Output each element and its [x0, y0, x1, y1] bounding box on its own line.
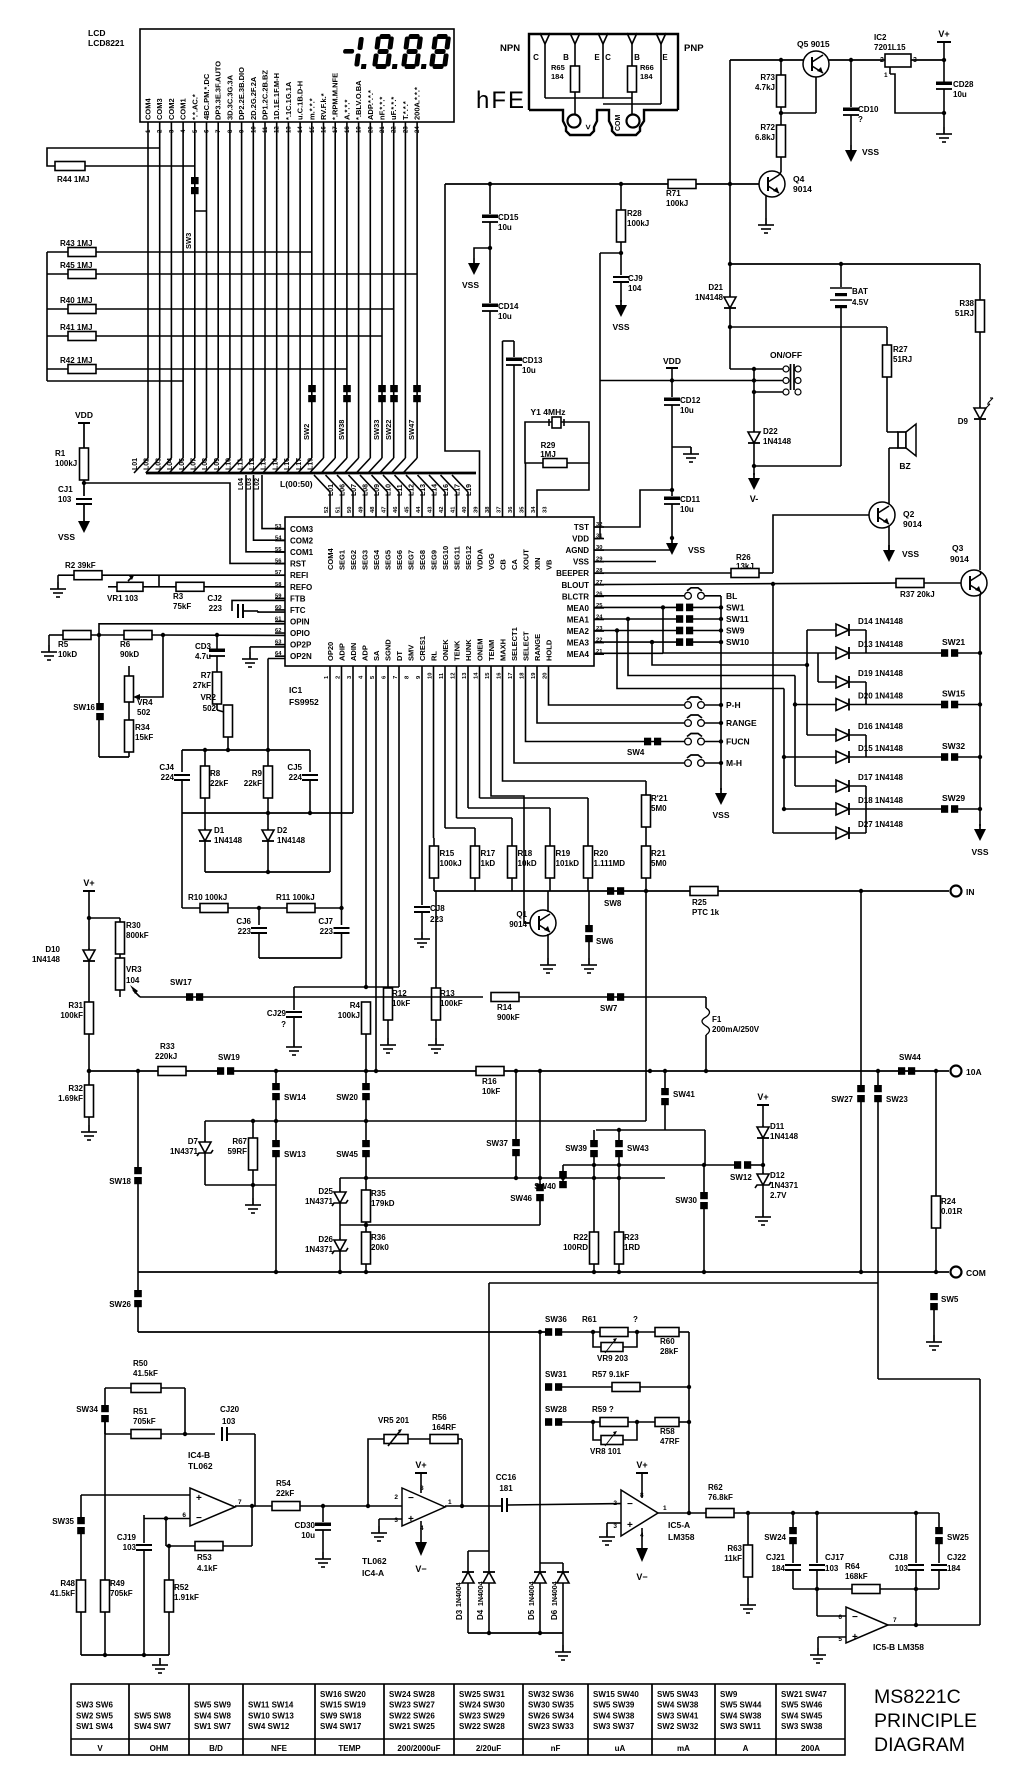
svg-text:V+: V+: [757, 1092, 768, 1102]
capacitor CJ21 184: [766, 1553, 801, 1589]
diode D26 1N4371 zener: [305, 1225, 348, 1272]
svg-text:NFE: NFE: [271, 1744, 288, 1753]
svg-text:CJ8: CJ8: [430, 904, 445, 913]
diode D7 1N4371 zener: [170, 1121, 213, 1185]
svg-text:CD3: CD3: [195, 642, 212, 651]
svg-text:SW30 SW35: SW30 SW35: [528, 1701, 574, 1710]
svg-text:1kD: 1kD: [481, 859, 496, 868]
svg-text:D16 1N4148: D16 1N4148: [858, 722, 903, 731]
svg-text:XOUT: XOUT: [522, 549, 531, 570]
svg-text:181: 181: [499, 1484, 513, 1493]
svg-text:*.BLV.O.BA: *.BLV.O.BA: [354, 80, 363, 120]
svg-text:V+: V+: [636, 1460, 647, 1470]
wire diode matrix anode links: [771, 582, 836, 833]
potentiometer VR3 104: [116, 958, 143, 997]
svg-text:SW41: SW41: [673, 1090, 695, 1099]
svg-text:17: 17: [333, 126, 339, 133]
svg-text:R41 1MJ: R41 1MJ: [60, 323, 92, 332]
svg-text:SA: SA: [372, 650, 381, 661]
wire hFE socket internal: [545, 58, 661, 104]
diode D10 1N4148: [32, 945, 95, 1002]
svg-text:BLOUT: BLOUT: [561, 581, 589, 590]
svg-text:R4: R4: [350, 1001, 361, 1010]
svg-text:R23: R23: [624, 1233, 639, 1242]
svg-text:41: 41: [451, 506, 457, 513]
svg-text:L04: L04: [238, 478, 245, 490]
svg-text:SW4: SW4: [627, 748, 645, 757]
resistor R67 59RF: [227, 1119, 257, 1198]
wire MEA3 to diode feed: [650, 640, 809, 667]
svg-text:SW16: SW16: [73, 703, 95, 712]
svg-text:DP2.2E.3B.DIO: DP2.2E.3B.DIO: [237, 67, 246, 120]
svg-text:SW2: SW2: [302, 424, 311, 440]
svg-text:SW23 SW27: SW23 SW27: [389, 1701, 435, 1710]
switch SW14: [272, 1071, 306, 1140]
wire CJ6 CJ7 bottom rail: [259, 957, 342, 959]
svg-text:R27: R27: [893, 345, 908, 354]
diode D17 1N4148: [836, 773, 903, 792]
resistor R20 1.111MD: [480, 666, 626, 891]
wire ADIN pin3 down to rail: [352, 666, 354, 813]
wire IC5-B output loop: [878, 1379, 980, 1627]
svg-text:IC5-B LM358: IC5-B LM358: [873, 1642, 924, 1652]
svg-text:VSS: VSS: [612, 322, 629, 332]
svg-text:R59 ?: R59 ?: [592, 1405, 614, 1414]
svg-text:100kJ: 100kJ: [666, 199, 688, 208]
svg-text:nF.*.*.*: nF.*.*.*: [378, 97, 387, 120]
resistor R50 41.5kF: [105, 1359, 185, 1393]
svg-text:MEA0: MEA0: [567, 604, 590, 613]
switch SW47: [407, 385, 421, 440]
svg-text:SW36: SW36: [545, 1315, 567, 1324]
svg-text:20k0: 20k0: [371, 1243, 389, 1252]
wire diode matrix cathode links: [849, 630, 866, 833]
svg-text:6.8kJ: 6.8kJ: [755, 133, 775, 142]
wire LCD pins 1-24 down to bus: [134, 122, 417, 473]
resistor R30 800kF: [89, 918, 149, 958]
resistor R3 75kF: [173, 582, 285, 611]
svg-text:SEG8: SEG8: [418, 550, 427, 570]
svg-text:43: 43: [428, 506, 434, 513]
wire caps bottom rail with R64: [793, 1587, 939, 1591]
resistor R51 705kF: [105, 1388, 215, 1439]
ground below CD28: [936, 127, 952, 142]
svg-text:R21: R21: [651, 849, 666, 858]
resistor R'21 5M0: [503, 666, 669, 846]
svg-text:800kF: 800kF: [126, 931, 149, 940]
svg-text:SW3: SW3: [184, 233, 193, 249]
wire rail 1332: [138, 1330, 545, 1334]
svg-text:OP2N: OP2N: [290, 652, 312, 661]
svg-text:>: >: [583, 124, 593, 129]
svg-text:VSS: VSS: [462, 280, 479, 290]
svg-text:SEG5: SEG5: [384, 550, 393, 570]
svg-text:BEEPER: BEEPER: [556, 569, 589, 578]
svg-text:47RF: 47RF: [660, 1437, 680, 1446]
svg-text:ADP.*.*.*: ADP.*.*.*: [366, 90, 375, 120]
svg-text:ONEM: ONEM: [476, 639, 485, 662]
svg-text:2.7V: 2.7V: [770, 1191, 787, 1200]
svg-text:R10 100kJ: R10 100kJ: [188, 893, 227, 902]
svg-text:L(00:50): L(00:50): [280, 479, 313, 489]
svg-text:R66: R66: [640, 63, 654, 72]
svg-text:VGG: VGG: [487, 553, 496, 570]
svg-text:TEMP: TEMP: [338, 1744, 361, 1753]
svg-text:11: 11: [263, 126, 269, 133]
svg-text:E: E: [662, 53, 668, 62]
svg-text:SW32 SW36: SW32 SW36: [528, 1690, 574, 1699]
IC1 top pin numbers 52-33: [324, 506, 549, 513]
switch SW31: [540, 1332, 612, 1391]
svg-text:MEA3: MEA3: [567, 639, 590, 648]
wire pin4 ADP down / CJ29 row: [294, 666, 399, 989]
resistor R2 39kF: [58, 561, 285, 580]
svg-text:R64: R64: [845, 1562, 860, 1571]
svg-text:SW8: SW8: [604, 899, 622, 908]
svg-text:4.5V: 4.5V: [852, 298, 869, 307]
svg-text:5M0: 5M0: [651, 859, 667, 868]
svg-text:SELECT1: SELECT1: [510, 627, 519, 661]
svg-text:R54: R54: [276, 1479, 291, 1488]
svg-text:SW23 SW29: SW23 SW29: [459, 1711, 505, 1720]
pushbutton RANGE: [537, 666, 757, 728]
svg-text:C: C: [533, 53, 539, 62]
potentiometer VR9 203: [593, 1332, 637, 1363]
capacitor CJ8 223 on pin9: [414, 666, 445, 947]
svg-text:Y1 4MHz: Y1 4MHz: [531, 407, 566, 417]
svg-text:CJ9: CJ9: [628, 274, 643, 283]
switch SW6: [581, 891, 614, 973]
svg-text:SW27: SW27: [831, 1095, 853, 1104]
svg-text:1N4371: 1N4371: [770, 1181, 799, 1190]
svg-text:D11: D11: [770, 1122, 785, 1131]
switch SW24: [764, 1513, 797, 1563]
svg-text:103: 103: [58, 495, 72, 504]
switch SW40: [534, 1165, 567, 1191]
svg-text:SW15 SW19: SW15 SW19: [320, 1701, 366, 1710]
svg-text:RANGE: RANGE: [533, 634, 542, 661]
svg-text:−: −: [852, 1612, 858, 1623]
svg-text:SW4 SW17: SW4 SW17: [320, 1722, 362, 1731]
svg-text:L01: L01: [132, 458, 139, 470]
svg-text:R29: R29: [541, 441, 556, 450]
svg-text:4.7kJ: 4.7kJ: [755, 83, 775, 92]
svg-text:11: 11: [439, 672, 445, 679]
svg-text:R51: R51: [133, 1407, 148, 1416]
svg-text:1D.1E.1F.M-H: 1D.1E.1F.M-H: [272, 73, 281, 120]
svg-text:R36: R36: [371, 1233, 386, 1242]
svg-text:103: 103: [222, 1417, 236, 1426]
svg-text:SW13: SW13: [284, 1150, 306, 1159]
fuse F1 200mA/250V: [702, 997, 760, 1071]
potentiometer VR2 502: [200, 693, 232, 750]
svg-text:MEA2: MEA2: [567, 627, 590, 636]
svg-text:L08: L08: [363, 484, 370, 496]
svg-text:37: 37: [497, 507, 503, 513]
svg-text:28kF: 28kF: [660, 1347, 678, 1356]
svg-text:COM3: COM3: [290, 525, 314, 534]
capacitor CJ2 223: [207, 594, 285, 618]
svg-text:SW10 SW13: SW10 SW13: [248, 1711, 294, 1720]
svg-text:SEG1: SEG1: [338, 550, 347, 570]
svg-text:IC5-A: IC5-A: [668, 1520, 690, 1530]
wire R26 to Q2 base: [773, 515, 869, 573]
svg-text:SW5 SW39: SW5 SW39: [593, 1701, 635, 1710]
op-amp IC4-B TL062: [182, 1450, 242, 1526]
wire IC5-A output row: [658, 1511, 706, 1515]
svg-text:L02: L02: [254, 478, 261, 490]
svg-text:*.*.AC.*: *.*.AC.*: [190, 94, 199, 120]
svg-text:SEG6: SEG6: [395, 550, 404, 570]
svg-text:5M0: 5M0: [651, 804, 667, 813]
capacitor CJ18 103: [889, 1513, 924, 1589]
resistor R14 900kF: [483, 993, 706, 1023]
resistor R23 1RD: [615, 1165, 641, 1272]
switch SW18: [109, 1071, 142, 1290]
capacitor CJ17 103: [809, 1513, 845, 1589]
resistor R37 20kJ: [594, 579, 961, 600]
wire MEA4 row: [594, 652, 663, 654]
svg-text:DT: DT: [395, 651, 404, 661]
svg-text:R48: R48: [60, 1579, 75, 1588]
svg-text:V−: V−: [636, 1572, 647, 1582]
svg-text:39: 39: [474, 506, 480, 513]
power VSS tap left of CD15: [462, 248, 490, 290]
svg-text:15kF: 15kF: [135, 733, 153, 742]
diode D15 1N4148: [836, 744, 903, 763]
svg-text:100kF: 100kF: [60, 1011, 83, 1020]
switch SW46: [510, 1071, 544, 1225]
svg-text:IC4-B: IC4-B: [188, 1450, 210, 1460]
svg-text:CJ17: CJ17: [825, 1553, 845, 1562]
wire Q2 collector to buzzer: [889, 448, 898, 504]
svg-text:CJ2: CJ2: [207, 594, 222, 603]
op-amp/IC U1: IC1 FS9952 main chip body: [285, 517, 594, 707]
svg-text:R35: R35: [371, 1189, 386, 1198]
resistor R9 22kF: [244, 750, 273, 813]
svg-text:14: 14: [298, 126, 304, 133]
svg-text:224: 224: [289, 773, 303, 782]
svg-text:MS8221C: MS8221C: [874, 1686, 961, 1708]
svg-text:L06: L06: [179, 458, 186, 470]
resistor R34 15kF: [99, 702, 153, 757]
capacitor CJ7 223: [318, 906, 349, 958]
svg-text:16: 16: [322, 126, 328, 133]
svg-text:SW22 SW26: SW22 SW26: [389, 1711, 435, 1720]
svg-text:VSS: VSS: [58, 532, 75, 542]
svg-text:R32: R32: [68, 1084, 83, 1093]
power VSS below CJ1: [58, 504, 90, 542]
diode D18 1N4148: [836, 796, 903, 815]
svg-text:R17: R17: [481, 849, 496, 858]
svg-text:IC2: IC2: [874, 33, 887, 42]
switch SW21: [866, 637, 982, 657]
svg-text:14: 14: [474, 672, 480, 679]
svg-text:AGND: AGND: [565, 546, 589, 555]
wire TST to CD11: [594, 488, 674, 527]
resistor R22 100RD: [563, 1165, 598, 1272]
svg-text:9014: 9014: [903, 519, 922, 529]
transistor Q1 9014: [509, 891, 556, 973]
svg-text:CD30: CD30: [295, 1521, 316, 1530]
svg-text:SW35: SW35: [52, 1517, 74, 1526]
svg-text:SEG4: SEG4: [372, 549, 381, 570]
svg-text:D15 1N4148: D15 1N4148: [858, 744, 903, 753]
svg-text:HOLD: HOLD: [545, 639, 554, 661]
svg-text:M-H: M-H: [726, 758, 742, 768]
svg-text:CJ4: CJ4: [159, 763, 174, 772]
svg-text:705kF: 705kF: [110, 1589, 133, 1598]
switch SW12: [730, 1161, 752, 1182]
svg-text:R8: R8: [210, 769, 221, 778]
svg-text:CJ29: CJ29: [267, 1009, 287, 1018]
svg-text:164RF: 164RF: [432, 1423, 456, 1432]
svg-text:RV.F.k.*: RV.F.k.*: [319, 93, 328, 120]
svg-text:TENM: TENM: [487, 640, 496, 661]
svg-text:COM3: COM3: [155, 98, 164, 120]
switch SW25: [935, 1513, 969, 1563]
op-amp IC5-B LM358: [838, 1607, 924, 1652]
svg-text:SW37: SW37: [486, 1139, 508, 1148]
wire left bus of R43-R42: [47, 252, 183, 381]
svg-text:100kJ: 100kJ: [338, 1011, 360, 1020]
svg-text:R2 39kF: R2 39kF: [65, 561, 96, 570]
svg-text:L11: L11: [237, 458, 244, 470]
svg-text:SW25: SW25: [947, 1533, 969, 1542]
svg-text:223: 223: [430, 915, 444, 924]
resistor R72 6.8kJ: [755, 123, 786, 172]
resistor R8 22kF: [201, 750, 229, 813]
svg-text:75kF: 75kF: [173, 602, 191, 611]
switch SW37: [486, 1071, 520, 1178]
LCD seven-segment display -1.8.8.8: [341, 34, 452, 69]
svg-text:22kF: 22kF: [244, 779, 262, 788]
LED D9: [958, 398, 993, 570]
resistor R73 4.7kJ: [755, 60, 816, 125]
resistor R16 10kF: [476, 1067, 504, 1097]
svg-text:23: 23: [403, 126, 409, 133]
wire row 1225: [340, 1223, 540, 1227]
svg-text:OPIO: OPIO: [290, 629, 310, 638]
diode D19 1N4148: [836, 669, 903, 688]
regulator IC2 7201L15: [874, 33, 944, 113]
wire CJ18 column to output row: [915, 1589, 917, 1625]
resistor R21 5M0: [642, 846, 668, 891]
svg-text:20: 20: [368, 126, 374, 133]
svg-text:D7: D7: [188, 1137, 199, 1146]
svg-text:CJ1: CJ1: [58, 485, 73, 494]
power VDD label near CD12: [663, 356, 681, 397]
svg-text:200A: 200A: [801, 1744, 820, 1753]
svg-text:3: 3: [913, 57, 917, 64]
svg-text:9014: 9014: [793, 184, 812, 194]
svg-text:CJ18: CJ18: [889, 1553, 909, 1562]
svg-text:SW21 SW47: SW21 SW47: [781, 1690, 827, 1699]
wire pin5 SA down to main rail: [375, 666, 377, 1071]
svg-text:VB: VB: [545, 559, 554, 570]
svg-text:LCD8221: LCD8221: [88, 38, 125, 48]
resistor R6 90kD: [97, 631, 285, 660]
svg-text:SW38: SW38: [337, 420, 346, 440]
svg-text:R28: R28: [627, 209, 642, 218]
svg-text:SW11: SW11: [726, 614, 749, 624]
potentiometer VR5 201: [366, 1416, 430, 1508]
svg-text:COM4: COM4: [326, 548, 335, 570]
power V+ mid left: [83, 878, 95, 948]
hFE socket pins C B E C B E: [533, 33, 668, 62]
svg-text:SW40: SW40: [534, 1182, 556, 1191]
svg-text:R53: R53: [197, 1553, 212, 1562]
switch SW5: [926, 1272, 959, 1350]
power V- below IC5-A: [636, 1528, 648, 1582]
svg-text:223: 223: [320, 927, 334, 936]
svg-text:ADIN: ADIN: [349, 643, 358, 661]
svg-text:1RD: 1RD: [624, 1243, 640, 1252]
svg-text:L13: L13: [420, 484, 427, 496]
resistor R35 179kD: [362, 1189, 395, 1232]
resistor R18 10kD: [457, 666, 537, 891]
svg-text:DIAGRAM: DIAGRAM: [874, 1734, 965, 1756]
resistor R36 20k0: [362, 1232, 390, 1272]
switch SW9: [594, 626, 745, 636]
switch SW7: [600, 993, 624, 1013]
power VSS below CD11: [666, 538, 705, 555]
svg-text:224: 224: [161, 773, 175, 782]
svg-text:41.5kF: 41.5kF: [50, 1589, 75, 1598]
svg-text:1N4148: 1N4148: [214, 836, 243, 845]
resistor R24 0.01R: [932, 1071, 963, 1272]
svg-text:FS9952: FS9952: [289, 697, 319, 707]
svg-text:SW44: SW44: [899, 1053, 921, 1062]
svg-text:SW15: SW15: [942, 689, 965, 699]
svg-text:L08: L08: [202, 458, 209, 470]
svg-text:179kD: 179kD: [371, 1199, 395, 1208]
resistor R27 51RJ: [883, 327, 913, 432]
svg-text:L16: L16: [443, 484, 450, 496]
switch SW2: [302, 385, 316, 440]
svg-text:1.111MD: 1.111MD: [594, 859, 626, 868]
resistor R53 4.1kF: [164, 1504, 254, 1573]
svg-text:VDD: VDD: [663, 356, 681, 366]
svg-text:IC1: IC1: [289, 685, 303, 695]
svg-text:SW3 SW38: SW3 SW38: [781, 1722, 823, 1731]
switch SW44: [898, 1053, 921, 1075]
svg-text:12: 12: [451, 673, 457, 679]
svg-text:51: 51: [336, 506, 342, 513]
svg-text:22kF: 22kF: [276, 1489, 294, 1498]
svg-text:VR8 101: VR8 101: [590, 1447, 622, 1456]
svg-text:R34: R34: [135, 723, 150, 732]
wire D3-D6 bottom rail to ground: [468, 1631, 571, 1660]
svg-text:COM2: COM2: [290, 537, 314, 546]
svg-text:SW4 SW45: SW4 SW45: [781, 1711, 823, 1720]
svg-text:4BC.PM.*.DC: 4BC.PM.*.DC: [202, 73, 211, 120]
svg-text:SW12: SW12: [730, 1173, 752, 1182]
svg-text:SW34: SW34: [76, 1405, 98, 1414]
svg-text:42: 42: [439, 507, 445, 513]
svg-text:ON/OFF: ON/OFF: [770, 350, 802, 360]
svg-text:CJ5: CJ5: [287, 763, 302, 772]
svg-text:R60: R60: [660, 1337, 675, 1346]
wire TENM pin to Q1 base: [491, 666, 530, 923]
svg-text:VR5 201: VR5 201: [378, 1416, 410, 1425]
svg-text:36: 36: [508, 506, 514, 513]
capacitor CJ1 103: [58, 485, 92, 504]
svg-text:BAT: BAT: [852, 287, 868, 296]
svg-text:L01: L01: [328, 484, 335, 496]
bus L(00:50): [146, 473, 476, 489]
wire OP2P to ground: [242, 647, 285, 667]
